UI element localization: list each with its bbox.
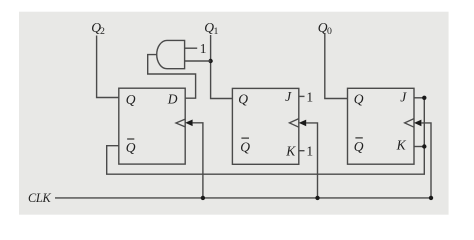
svg-text:K: K (285, 144, 296, 159)
wire AND input stub to constant 1 (185, 47, 198, 49)
pin label J (FF1) (285, 89, 292, 104)
JK flip-flop FF0 body (348, 88, 415, 164)
svg-text:J: J (285, 89, 292, 104)
pin label K (FF1) (285, 144, 296, 159)
svg-text:0: 0 (327, 26, 332, 37)
wire CLK to FF2 clock (192, 123, 203, 198)
pin label Qbar (FF0) (354, 138, 364, 154)
svg-text:1: 1 (306, 144, 313, 159)
svg-text:Q: Q (126, 92, 136, 107)
wire AND output to FF2 D input (148, 55, 196, 99)
svg-text:CLK: CLK (28, 191, 51, 205)
svg-text:Q: Q (354, 139, 364, 154)
FF0 clock arrowhead (414, 120, 421, 127)
label Q1 (204, 20, 218, 37)
svg-text:K: K (396, 137, 407, 152)
wire AND input from Q1 node (185, 60, 211, 62)
wire Q1 net to FF1 Q output (211, 35, 233, 99)
wire CLK bus (55, 197, 431, 199)
FF2 clock arrowhead (185, 120, 192, 127)
svg-text:J: J (400, 89, 407, 104)
node CLK to FF0 (429, 196, 433, 200)
pin label Qbar (FF2) (126, 139, 136, 155)
pin label Q (FF1) (238, 92, 248, 107)
value label 1 (AND gate input) (200, 41, 207, 56)
pin label K (FF0) (396, 137, 407, 152)
svg-text:1: 1 (214, 26, 219, 37)
node Q1 junction to AND input (208, 59, 212, 63)
node FF0 K junction (422, 144, 426, 148)
node CLK to FF1 (315, 196, 319, 200)
pin label J (FF0) (400, 89, 407, 104)
JK flip-flop FF1 body (232, 88, 298, 164)
svg-text:1: 1 (200, 41, 207, 56)
pin label Q (FF0) (354, 92, 364, 107)
svg-text:Q: Q (238, 92, 248, 107)
wire FF0 J stub (414, 97, 424, 99)
wire Q2 net to FF2 Q output (97, 36, 119, 98)
D flip-flop FF2 body (119, 88, 185, 164)
label CLK (28, 191, 51, 205)
svg-text:D: D (167, 91, 178, 106)
wire CLK to FF0 clock (421, 123, 431, 198)
AND gate G1 (facing left) (157, 40, 185, 68)
FF2 clock edge triangle (176, 119, 185, 127)
label Q2 (91, 20, 105, 37)
value label 1 (FF1 K) (306, 144, 313, 159)
wire FF0 K stub (414, 146, 424, 148)
node FF0 J junction (422, 96, 426, 100)
value label 1 (FF1 J) (306, 90, 313, 105)
pin label D (FF2) (167, 91, 178, 106)
FF0 clock edge triangle (405, 119, 414, 128)
background panel (19, 12, 449, 215)
svg-text:1: 1 (306, 90, 313, 105)
svg-text:Q: Q (126, 140, 136, 155)
wire CLK to FF1 clock (306, 123, 318, 198)
label Q0 (318, 20, 332, 37)
wire FF1 K stub to constant 1 (299, 150, 305, 152)
pin label Qbar (FF1) (240, 138, 250, 155)
wire FF1 J stub to constant 1 (299, 95, 305, 97)
wire Q0 net to FF0 Q output (325, 34, 348, 99)
node CLK to FF2 (201, 196, 205, 200)
FF1 clock edge triangle (289, 119, 298, 128)
FF1 clock arrowhead (299, 120, 306, 127)
svg-text:Q: Q (354, 92, 364, 107)
pin label Q (FF2) (126, 92, 136, 107)
wire FF2 Qbar to FF0 J and K (107, 98, 425, 174)
svg-text:Q: Q (240, 140, 250, 155)
svg-text:2: 2 (100, 26, 105, 37)
